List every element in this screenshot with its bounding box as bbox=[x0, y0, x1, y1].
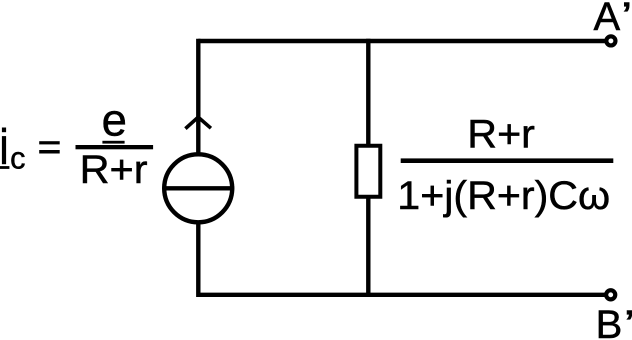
svg-text:1+j(R+r)Cω: 1+j(R+r)Cω bbox=[397, 174, 610, 218]
svg-text:A: A bbox=[594, 0, 621, 39]
svg-text:R+r: R+r bbox=[80, 148, 148, 192]
svg-text:e: e bbox=[102, 94, 127, 145]
svg-text:B: B bbox=[596, 303, 623, 340]
svg-text:R+r: R+r bbox=[467, 113, 535, 157]
svg-text:’: ’ bbox=[621, 0, 632, 39]
svg-text:c: c bbox=[10, 141, 25, 176]
svg-text:’: ’ bbox=[624, 303, 632, 340]
